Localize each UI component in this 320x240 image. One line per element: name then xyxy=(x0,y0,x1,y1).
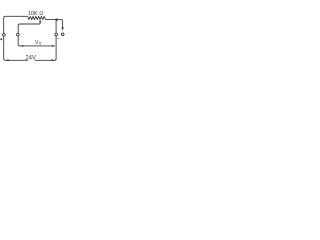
svg-text:24V: 24V xyxy=(25,56,35,62)
svg-text:Vo: Vo xyxy=(35,40,42,47)
svg-text:10K Ω: 10K Ω xyxy=(28,11,44,17)
